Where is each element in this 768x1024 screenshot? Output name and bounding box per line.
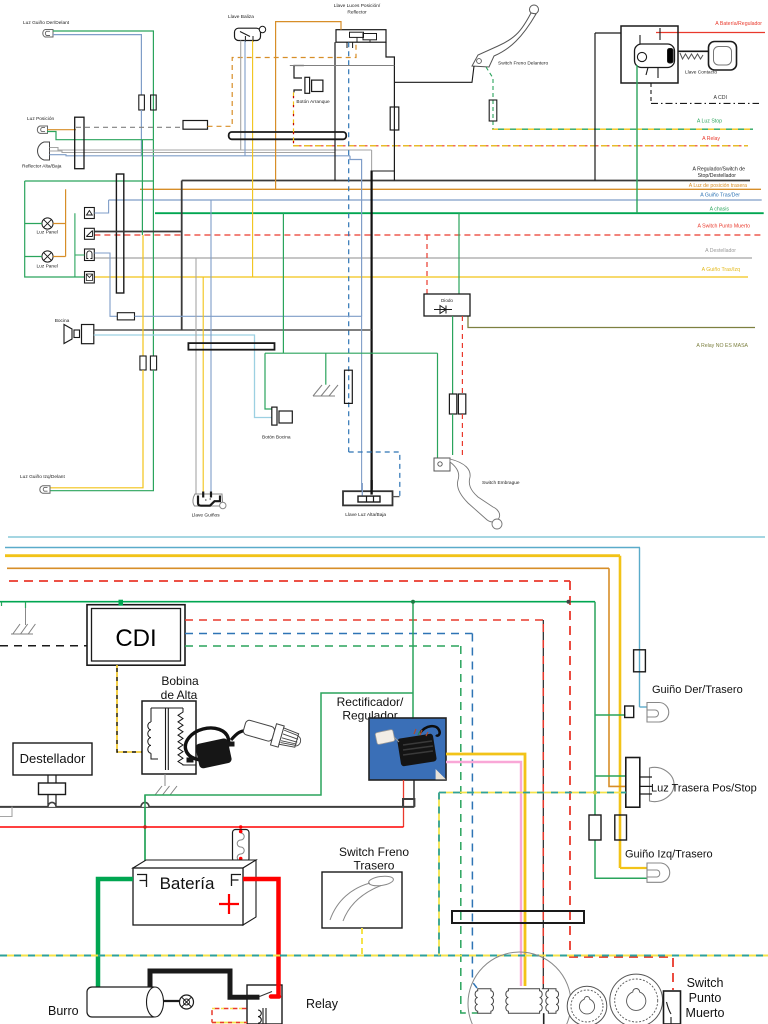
wire green icons link [75, 213, 85, 277]
wire blue from Llave Baliza [244, 41, 246, 156]
svg-text:A Destellador: A Destellador [705, 248, 736, 254]
svg-text:de Alta: de Alta [161, 688, 198, 702]
wire blue dashed x348.7 [348, 42, 350, 452]
ground symbol CDI [13, 624, 36, 634]
svg-text:Trasero: Trasero [354, 859, 395, 873]
svg-text:A Switch Punto Muerto: A Switch Punto Muerto [698, 224, 751, 230]
bus cyan bottom [5, 547, 640, 549]
secondary winding [178, 708, 196, 765]
svg-text:A Regulador/Switch de: A Regulador/Switch de [693, 167, 746, 173]
wire yellow/teal dashed x439 [438, 793, 440, 956]
bus red y827 [0, 826, 404, 828]
svg-text:Bocina: Bocina [55, 318, 70, 324]
svg-text:Llave Luz Alta/Baja: Llave Luz Alta/Baja [345, 512, 386, 518]
wire green y353 to lever [437, 353, 439, 461]
wire pink rectificador [446, 762, 521, 986]
svg-text:Relay: Relay [306, 997, 339, 1011]
wire red dashed relay left [212, 1009, 246, 1023]
wire black link y171 [372, 170, 395, 172]
horn Bocina [64, 325, 72, 344]
wire black dashed into CDI [0, 645, 87, 647]
key Llave Guinos [193, 494, 223, 506]
wire blue reflector [50, 155, 351, 156]
wire green from Luz Guino Der [53, 31, 153, 140]
fuse on green x595 [589, 815, 601, 840]
connector Destellador [39, 783, 66, 795]
wire A Bateria/Regulador (red) [656, 32, 765, 34]
ground stub left [1, 602, 3, 606]
wire orange dashed from box to Llave Baliza loop [208, 44, 357, 126]
fuse on yellow x620 [615, 815, 627, 840]
wire black x335 from switch [334, 42, 336, 180]
wire blue x210 [210, 200, 212, 492]
wire black rectificador down [413, 780, 415, 807]
wire green Luz Posicion [47, 132, 153, 140]
wire blue dashed loop [349, 452, 400, 497]
wire black dashed ignition to A CDI [650, 83, 652, 103]
wire orange panel link [53, 189, 66, 256]
wire yellow dashed switch freno [361, 928, 363, 956]
junction dot green x413 [411, 600, 415, 604]
page divider line [8, 536, 765, 538]
svg-text:Botón Bocina: Botón Bocina [262, 435, 291, 441]
box Destellador [13, 743, 92, 775]
svg-text:Bobina: Bobina [161, 674, 199, 688]
wire yellow/teal dashed y792 [439, 792, 626, 794]
component box on dashed wire [183, 121, 208, 130]
battery terminal left [137, 875, 147, 888]
icon neutral [85, 249, 95, 261]
fuse Guino Der [634, 650, 646, 672]
wire green x155 lower [50, 370, 153, 491]
wire red rectificador down [403, 780, 405, 827]
wire blue dashed from CDI [185, 633, 472, 635]
wire red dashed to Diodo [426, 235, 428, 305]
wire green to Diodo [458, 213, 460, 294]
svg-text:Luz Panel: Luz Panel [37, 230, 58, 236]
wire A Relay NO ES MASA (olive) [468, 316, 755, 328]
svg-text:Reflector Alta/Baja: Reflector Alta/Baja [22, 164, 62, 170]
wire green branch to ground [325, 353, 327, 385]
wire black lever to switch bus [394, 66, 474, 82]
connector Guino Der [625, 706, 634, 718]
connector on blue dashed x348 [345, 370, 353, 403]
wire red dashed from CDI [185, 619, 544, 621]
svg-text:Punto: Punto [689, 991, 722, 1005]
lever Switch Freno Delantero [530, 5, 539, 14]
rotor circle large [610, 974, 663, 1024]
svg-text:Guiño Der/Trasero: Guiño Der/Trasero [652, 684, 743, 696]
svg-text:A Guiño Tras/Der: A Guiño Tras/Der [700, 193, 740, 199]
svg-text:A chasis: A chasis [710, 207, 730, 213]
wire darkgray vertical x181 [181, 181, 183, 331]
switch Boton Arranque [294, 66, 304, 93]
magneto coil center [506, 989, 542, 1013]
wire green battery feed [144, 795, 146, 866]
fuse on green x155 [150, 356, 156, 370]
lamp Luz Panel 1 [42, 218, 53, 229]
wire yellow from Llave Baliza [252, 41, 254, 278]
starter Burro [87, 987, 158, 1017]
junction dot x568 [567, 600, 571, 604]
wire green ignition down [636, 65, 638, 213]
wire green x283 link [282, 213, 284, 353]
rectifier unit in photo [397, 733, 437, 766]
wire black Llave Luces right link [386, 42, 394, 180]
magneto circle [468, 952, 571, 1024]
wire green branch Guino Der [595, 714, 626, 716]
fuse pair Switch Embrague [449, 394, 456, 414]
wire green to Boton Bocina [265, 353, 272, 409]
icon turn-signal [85, 228, 95, 239]
wire red dashed vertical right [570, 581, 673, 990]
wire green drop to ground [25, 602, 27, 608]
wire gray dashed to connector box [76, 126, 183, 128]
ground symbol Bobina [155, 786, 177, 795]
battery box [133, 860, 256, 868]
wire red dashed diode down [461, 316, 463, 394]
bus darkgray y806 [0, 799, 414, 807]
bus bar top [188, 343, 274, 350]
fuse on blue x142 [139, 95, 145, 110]
connector Luz Trasera [626, 758, 640, 808]
rotor circle small [567, 986, 607, 1024]
relay switch blade [247, 995, 260, 1000]
photo Rectificador [369, 718, 446, 780]
wire A Relay (orange/red dashed) [293, 145, 748, 147]
wire gray x195 [195, 258, 197, 494]
svg-text:Switch Freno: Switch Freno [339, 845, 409, 859]
box Relay [247, 985, 282, 1024]
wire A chasis (green) [155, 212, 764, 214]
wire yellow x203 [202, 277, 204, 492]
svg-text:Batería: Batería [160, 874, 215, 893]
wire orange vertical right [609, 568, 626, 786]
relay coil [258, 1008, 266, 1024]
bus red dashed bottom [9, 580, 570, 582]
svg-text:Switch Freno Delantero: Switch Freno Delantero [498, 61, 548, 67]
connector tall center [116, 174, 123, 293]
wire A Guino Tras/Der (blue) [109, 199, 762, 201]
box Bobina de Alta [142, 701, 196, 774]
wire yellow x143 [142, 235, 144, 356]
transformer core [151, 708, 183, 770]
fuse battery [233, 830, 250, 862]
wire red dashed fuse to lever [461, 414, 463, 457]
wire green x142 upper [141, 140, 143, 235]
wire lightblue jog to x361.6 [350, 156, 362, 316]
svg-text:Llave Contacto: Llave Contacto [685, 70, 717, 76]
box Diodo [424, 294, 470, 316]
key Llave Contacto [679, 50, 714, 52]
wire A Regulador/Switch bus (black) [182, 180, 750, 182]
svg-text:A Relay NO ES MASA: A Relay NO ES MASA [696, 343, 748, 349]
bus bar upper [229, 132, 347, 139]
box Switch Freno Trasero [322, 872, 402, 928]
ignition barrel [635, 44, 675, 68]
bus yellow/teal dashed y955 [0, 955, 768, 957]
switch Llave Luz Alta/Baja [343, 491, 393, 505]
wire gray-to-thick-black x371.6 [371, 150, 373, 171]
battery plus sign [219, 894, 239, 914]
wire green branch Luz Trasera [595, 775, 626, 777]
connector Bocina [82, 325, 94, 344]
bus yellow bottom [5, 554, 620, 557]
wire A Luz Stop (green/yellow dashed) [492, 128, 753, 130]
wire green diode down [452, 316, 454, 394]
wire red/black x543 [542, 620, 544, 989]
svg-text:Destellador: Destellador [20, 751, 86, 766]
wire green thick battery [98, 879, 133, 990]
bus orange bottom [7, 567, 609, 569]
svg-text:A Luz de posición trasera: A Luz de posición trasera [689, 183, 747, 189]
wire red fuse to battery [240, 862, 242, 873]
fuse on black x394 [390, 107, 399, 130]
wire A Destellador (gray) [94, 257, 752, 259]
wire A CDI (black dash-dot) [651, 102, 759, 104]
svg-text:Switch Embrague: Switch Embrague [482, 480, 520, 486]
wire gray1 reflector [50, 148, 372, 151]
svg-text:CDI: CDI [115, 625, 156, 652]
wire blue icon3 run [94, 253, 117, 316]
wire green dashed lever [486, 67, 493, 129]
wire green dashed from CDI [185, 645, 461, 647]
primary winding [148, 708, 158, 759]
wire gray from Llave Baliza [240, 41, 242, 151]
icon high-beam [85, 208, 95, 219]
lamp Guino Izq/Trasero [647, 863, 670, 882]
wire green y353 [265, 352, 438, 354]
svg-text:A Batería/Regulador: A Batería/Regulador [715, 21, 762, 27]
wire yellow to Guino Izq [620, 867, 647, 869]
svg-text:Rectificador/: Rectificador/ [337, 695, 404, 709]
wire blue dashed x472 [472, 634, 477, 989]
svg-text:A Relay: A Relay [702, 136, 720, 142]
battery terminal right [232, 875, 242, 887]
wire A Guino Tras/Izq (yellow) [94, 276, 748, 278]
svg-text:Luz Trasera Pos/Stop: Luz Trasera Pos/Stop [651, 783, 757, 795]
box CDI outer [87, 605, 185, 666]
svg-text:Stop/Destellador: Stop/Destellador [698, 173, 737, 179]
wire darkgray horn [94, 329, 372, 331]
lamp Luz Guino Der/Delant [43, 30, 53, 38]
wire green fuse to lever [452, 414, 454, 455]
lamp Guino Der/Trasero [647, 703, 669, 723]
wire gray2 reflector [50, 151, 336, 153]
ground symbol mid [313, 385, 338, 396]
junction green CDI [119, 600, 124, 606]
wire cyan into lamp [640, 706, 648, 708]
svg-text:Luz Guiño Der/Delant: Luz Guiño Der/Delant [23, 20, 70, 26]
wire cyan horn [94, 335, 272, 418]
wire blue from Luz Guino Der [53, 35, 141, 95]
svg-text:Reflector: Reflector [347, 10, 367, 16]
ignition coil illustration [182, 723, 233, 764]
lamp Luz Panel 2 [42, 251, 53, 262]
diode symbol [434, 306, 452, 314]
bus green bottom [0, 601, 595, 603]
svg-text:Llave Baliza: Llave Baliza [228, 14, 254, 20]
fuse on yellow x143 [140, 356, 146, 370]
svg-text:Guiño Izq/Trasero: Guiño Izq/Trasero [625, 849, 713, 861]
wire yellow dashed relay bottom [212, 1022, 247, 1024]
lamp Luz Posicion [37, 126, 47, 133]
wire green y181 link [25, 180, 154, 182]
wire blue y316 [135, 316, 362, 491]
svg-text:Luz Panel: Luz Panel [37, 264, 58, 270]
lamp Luz Guino Izq/Delant [40, 486, 50, 493]
svg-text:Luz Guiño Izq/Delant: Luz Guiño Izq/Delant [20, 474, 65, 480]
key Llave Baliza [235, 28, 261, 40]
wire yellow x143 lower [50, 370, 143, 488]
junction dot red x146 [143, 825, 146, 828]
wire green dashed x461 [461, 646, 478, 1013]
wire green vertical right [594, 602, 596, 815]
box CDI inner [92, 609, 181, 662]
wire black thick burro to relay [150, 971, 247, 997]
magneto coil left [475, 989, 493, 1013]
wire A Switch Punto Muerto (red dashed) [94, 234, 762, 236]
spark plug illustration [242, 716, 304, 753]
switch Llave Luces Posicion/Reflector [336, 30, 386, 43]
gray stub left [0, 807, 12, 817]
resistor on blue [117, 313, 134, 320]
junction blob x595 y792 [593, 791, 597, 795]
bus bar bottom [452, 911, 584, 923]
svg-text:Burro: Burro [48, 1004, 79, 1018]
svg-text:A Guiño Tras/Izq: A Guiño Tras/Izq [702, 267, 740, 273]
wire red/yellow dashed from Boton Arranque [293, 92, 295, 145]
svg-text:Llave Luces Posición/: Llave Luces Posición/ [334, 3, 381, 9]
lamp Luz Trasera Pos/Stop [650, 767, 675, 801]
wire green rectificador frame [412, 602, 414, 730]
wire yellow/black dashed CDI to Bobina [117, 665, 142, 752]
wire bobina ground [164, 774, 166, 786]
junction dot red fuse [239, 825, 242, 828]
wire blue icon1 [94, 200, 108, 213]
switch Boton Bocina [272, 407, 277, 425]
connector on green dashed [489, 100, 497, 121]
svg-text:A Luz Stop: A Luz Stop [697, 119, 722, 125]
wire A Luz de posicion trasera (orange) [140, 188, 761, 190]
svg-text:Switch: Switch [687, 976, 724, 990]
fuse on green x153 [151, 95, 157, 110]
wire gray Boton Arranque top [290, 65, 395, 67]
magneto coil right [546, 989, 559, 1013]
wire black bus y231 [94, 231, 181, 233]
icon battery [85, 272, 95, 284]
svg-text:A CDI: A CDI [713, 95, 727, 101]
lever Switch Embrague [434, 458, 450, 471]
lamp Reflector Alta/Baja [38, 142, 50, 160]
wire yellow vertical right [619, 556, 622, 868]
wire orange Luz Posicion [48, 129, 77, 131]
wire orange Llave Luces feed [276, 22, 341, 190]
box Switch Punto Muerto [664, 991, 681, 1024]
wire green panel loop [25, 181, 85, 277]
svg-text:Diodo: Diodo [441, 298, 453, 303]
svg-text:Llave Guiños: Llave Guiños [192, 513, 221, 519]
wire black ignition feed [595, 32, 621, 34]
wire green x153 mid [152, 140, 154, 356]
wire yellow rectificador [446, 754, 525, 986]
wire blue x142 lower [140, 110, 142, 156]
wire red thick battery [243, 879, 279, 985]
pins below Llave Luces box [347, 42, 353, 48]
connector tall left [75, 117, 84, 169]
svg-text:Botón Arranque: Botón Arranque [296, 99, 330, 105]
wire cyan vertical right [639, 548, 641, 708]
svg-text:Muerto: Muerto [686, 1006, 725, 1020]
wire green below fuse [595, 840, 647, 878]
wire red thick into relay [271, 985, 279, 997]
pedal in Switch Freno Trasero [368, 875, 394, 887]
switch box Llave Contacto [621, 26, 678, 83]
svg-text:Luz Posición: Luz Posición [27, 116, 55, 122]
